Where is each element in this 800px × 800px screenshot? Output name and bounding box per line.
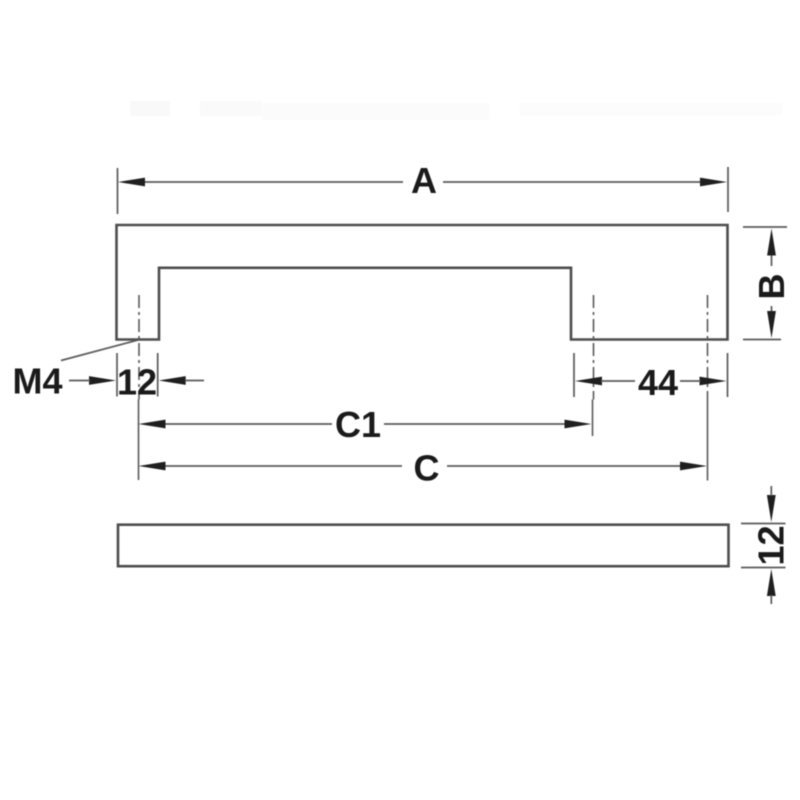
svg-text:C: C xyxy=(414,448,440,489)
side view dimension 12 extension line bottom xyxy=(741,567,786,569)
dimension 12 right tail xyxy=(185,380,204,382)
dimension 12 extension line left xyxy=(116,353,118,397)
dimension A line left segment xyxy=(143,181,403,183)
dimension 12 extension line right xyxy=(157,353,159,397)
dimension B line upper segment xyxy=(771,255,773,266)
svg-text:A: A xyxy=(411,160,437,201)
dimension 12 outside arrow left xyxy=(89,376,116,385)
dimension 44 line right segment xyxy=(680,380,701,382)
svg-text:44: 44 xyxy=(638,362,678,403)
svg-text:M4: M4 xyxy=(12,361,62,402)
dimension 44 arrow left xyxy=(575,377,602,386)
dimension B extension line bottom xyxy=(743,339,781,341)
side view dimension 12 arrow up xyxy=(767,569,776,596)
dimension C1 line left segment xyxy=(164,423,332,425)
dimension A arrow right xyxy=(700,178,727,187)
handle bar (side view) xyxy=(118,525,729,567)
centerline left solid extension down to C dimension xyxy=(138,400,140,481)
centerline right solid extension down to C1 dimension xyxy=(592,400,594,437)
side view dimension 12 top tail xyxy=(770,486,772,496)
dimension 12 left tail xyxy=(69,380,90,382)
dimension B extension line top xyxy=(743,226,787,228)
dimension C1 arrow right xyxy=(565,420,592,429)
dimension A arrow left xyxy=(118,178,145,187)
svg-text:C1: C1 xyxy=(335,404,381,445)
svg-text:12: 12 xyxy=(117,362,157,403)
handle outline (front view) xyxy=(117,225,728,340)
side view dimension 12 extension line top xyxy=(741,523,786,525)
dimension B arrow up xyxy=(767,229,776,256)
dimension B arrow down xyxy=(767,311,776,338)
dimension A line right segment xyxy=(443,181,702,183)
dimension A extension line left xyxy=(117,168,119,214)
faint erased-watermark smudge xyxy=(130,101,170,116)
far right centerline (dash-dot) xyxy=(707,295,709,400)
dimension C1 arrow left xyxy=(139,420,166,429)
dimension C line right segment xyxy=(447,465,681,467)
svg-text:12: 12 xyxy=(750,525,791,565)
dimension 44 arrow right xyxy=(700,377,727,386)
dimension 44 extension line left xyxy=(573,353,575,397)
svg-text:B: B xyxy=(751,274,792,300)
dimension A extension line right xyxy=(727,167,729,212)
dimension B line lower segment xyxy=(771,306,773,312)
dimension C arrow right xyxy=(680,462,707,471)
side view dimension 12 arrow down xyxy=(767,495,776,522)
side view dimension 12 bottom tail xyxy=(770,595,772,604)
dimension 12 outside arrow right xyxy=(159,376,186,385)
M4 leader line xyxy=(61,340,138,361)
far right centerline solid extension down to C dimension xyxy=(707,400,709,481)
dimension C arrow left xyxy=(139,462,166,471)
screw hole centerline right (dash-dot) xyxy=(593,295,595,400)
screw hole centerline left (dash-dot) xyxy=(138,295,140,400)
dimension C1 line right segment xyxy=(384,423,566,425)
dimension 44 extension line right xyxy=(727,353,729,397)
dimension 44 line left segment xyxy=(601,380,635,382)
dimension C line left segment xyxy=(164,465,402,467)
